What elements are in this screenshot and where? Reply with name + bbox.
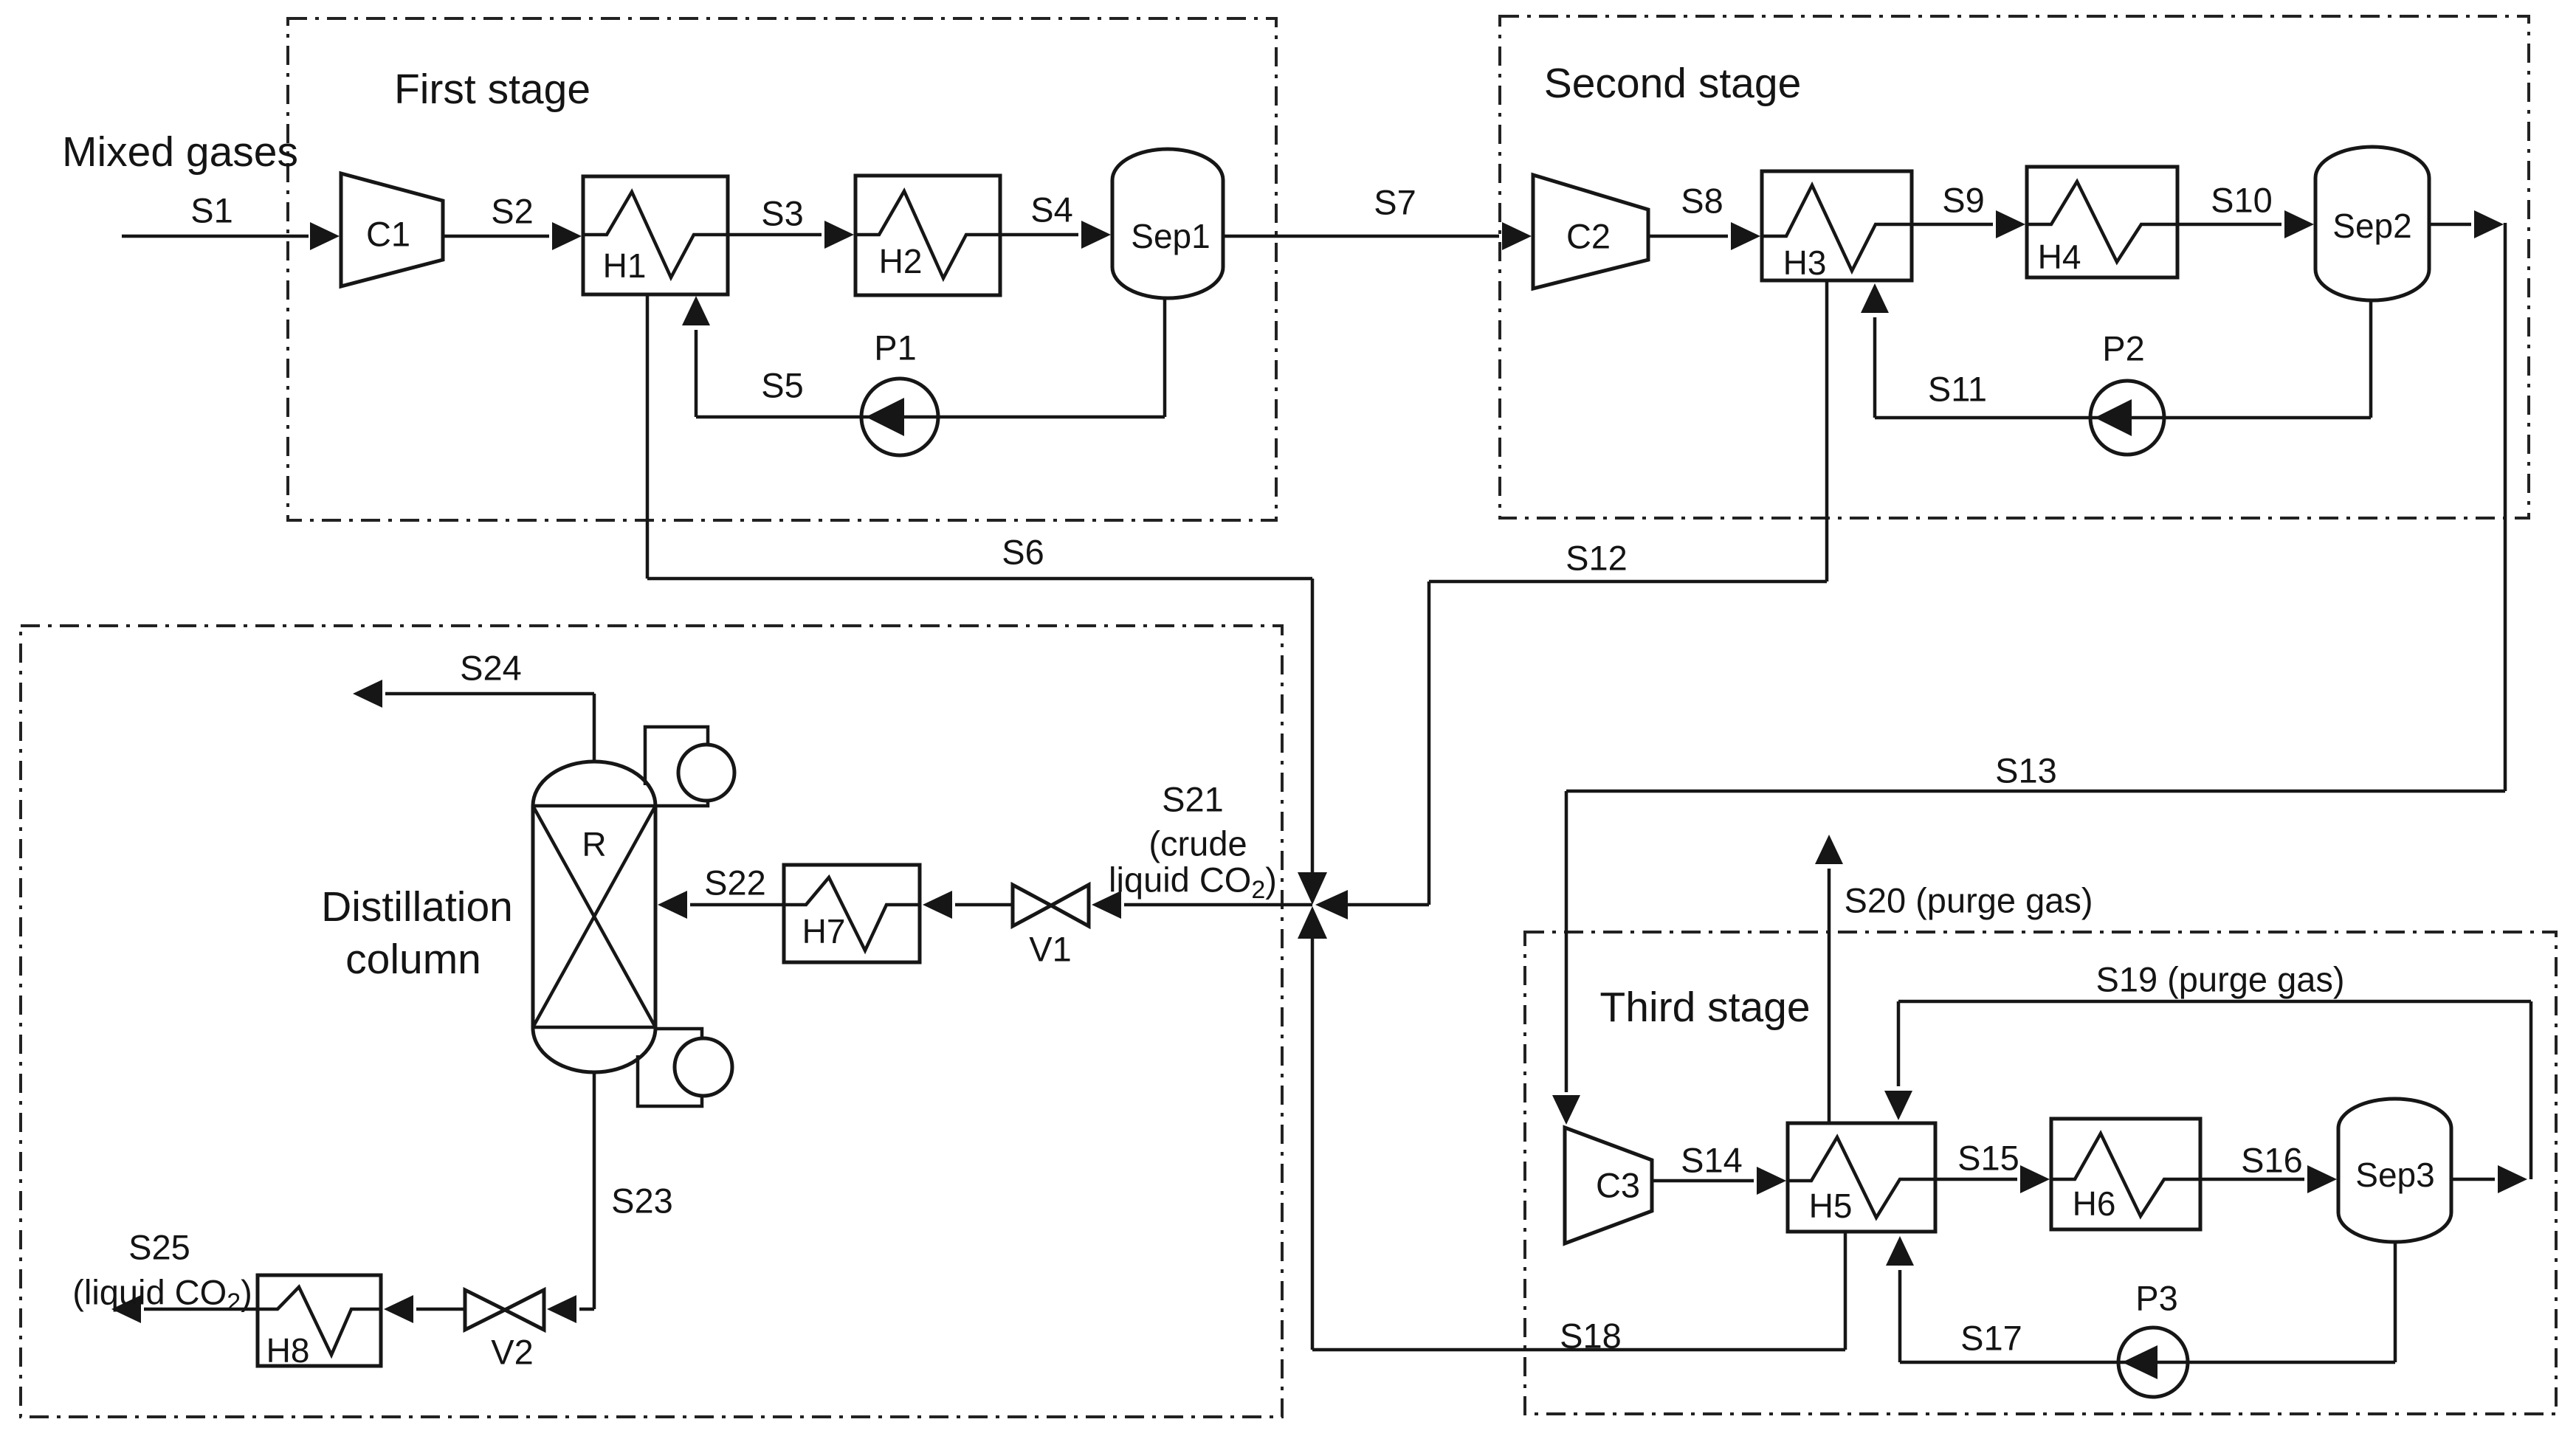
arrowhead S22 into column xyxy=(658,891,687,919)
wire S19 drop into H5 xyxy=(1897,1001,1901,1086)
wire S18 from H5 bottom xyxy=(1844,1232,1847,1350)
svg-text:S18: S18 xyxy=(1560,1317,1622,1356)
wire S18 horizontal xyxy=(1312,1348,1845,1352)
valve V1 xyxy=(1013,885,1051,926)
heat exchanger H5 xyxy=(1788,1123,1935,1232)
svg-text:H5: H5 xyxy=(1809,1187,1853,1225)
arrowhead S8 into H3 xyxy=(1731,222,1760,250)
heat exchanger H2 xyxy=(855,176,1000,295)
svg-text:S12: S12 xyxy=(1566,539,1628,578)
first stage dashed boundary box xyxy=(288,18,1276,520)
wire S14 xyxy=(1652,1179,1754,1183)
second stage dashed boundary box xyxy=(1500,16,2529,518)
wire S1 feed line xyxy=(122,235,309,238)
svg-text:H1: H1 xyxy=(603,246,647,285)
svg-text:S6: S6 xyxy=(1002,533,1044,572)
arrowhead S7 into C2 xyxy=(1502,222,1532,250)
wire S12 horizontal xyxy=(1429,580,1827,584)
svg-text:S1: S1 xyxy=(190,191,233,230)
arrowhead S4 into Sep1 xyxy=(1081,221,1111,249)
reboiler drum circle xyxy=(675,1038,732,1096)
wire Sep2 outlet to right xyxy=(2429,223,2471,227)
svg-text:Sep1: Sep1 xyxy=(1131,217,1210,255)
wire V2 to H8 xyxy=(416,1308,465,1311)
wire S5 horizontal xyxy=(696,415,1165,419)
arrowhead S15 into H6 xyxy=(2020,1165,2050,1193)
arrowhead S13 into C3 xyxy=(1552,1095,1580,1125)
svg-text:P3: P3 xyxy=(2135,1279,2178,1318)
svg-text:S17: S17 xyxy=(1960,1319,2022,1358)
svg-text:Mixed gases: Mixed gases xyxy=(62,128,298,176)
arrowhead into H8 xyxy=(384,1295,413,1323)
compressor C1 xyxy=(341,173,443,286)
svg-text:P2: P2 xyxy=(2102,329,2145,368)
pump P3 xyxy=(2118,1328,2188,1397)
arrowhead S16 into Sep3 xyxy=(2307,1165,2337,1193)
arrowhead S17 into H5 bottom xyxy=(1886,1236,1914,1266)
arrowhead S21 into V1 xyxy=(1092,891,1121,919)
wire S13 long horizontal xyxy=(1566,790,2505,793)
wire Sep3 bottom stem xyxy=(2394,1242,2397,1362)
wire S8 xyxy=(1648,235,1728,238)
arrowhead S24 out xyxy=(353,680,382,708)
wire S6 from H1 bottom down xyxy=(646,294,650,579)
svg-text:H7: H7 xyxy=(802,912,846,950)
svg-text:(liquid CO2): (liquid CO2) xyxy=(72,1273,252,1317)
svg-text:S24: S24 xyxy=(460,649,522,688)
wire S20 purge riser xyxy=(1828,869,1831,1123)
wire S6 drop to junction xyxy=(1311,579,1315,872)
arrowhead S18 into junction xyxy=(1298,906,1327,939)
svg-text:Third stage: Third stage xyxy=(1599,984,1810,1031)
svg-text:Sep2: Sep2 xyxy=(2332,207,2411,245)
wire S13 right vertical drop xyxy=(2504,223,2507,791)
arrowhead Sep2 outlet xyxy=(2474,210,2504,238)
pump P2 xyxy=(2090,381,2164,455)
wire S9 xyxy=(1912,223,1993,227)
wire S11 horizontal xyxy=(1875,416,2371,420)
svg-text:(crude: (crude xyxy=(1148,824,1247,863)
wire S7 Sep1 to C2 xyxy=(1223,235,1499,238)
wire S22 xyxy=(690,903,784,907)
svg-text:H6: H6 xyxy=(2073,1184,2116,1223)
wire Sep2 bottom stem xyxy=(2369,300,2373,418)
distillation section dashed boundary box xyxy=(21,626,1282,1417)
svg-text:C3: C3 xyxy=(1596,1166,1640,1205)
wire Sep1 bottom stem xyxy=(1163,298,1167,417)
svg-text:Second stage: Second stage xyxy=(1544,60,1802,107)
svg-text:H4: H4 xyxy=(2038,238,2081,276)
heat exchanger H4 xyxy=(2027,167,2177,277)
heat exchanger H8 xyxy=(258,1275,381,1366)
arrowhead S3 into H2 xyxy=(824,221,854,249)
arrowhead S12 into junction xyxy=(1315,890,1348,919)
svg-text:First stage: First stage xyxy=(394,66,590,113)
condenser loop piping xyxy=(645,727,708,806)
arrowhead S5 into H1 bottom xyxy=(682,296,710,325)
heat exchanger H7 xyxy=(784,865,920,962)
wire S10 xyxy=(2177,223,2281,227)
arrowhead S1 into C1 xyxy=(310,222,340,250)
svg-text:S2: S2 xyxy=(491,192,534,231)
wire S21 junction to V1 xyxy=(1124,903,1312,907)
svg-text:S15: S15 xyxy=(1957,1139,2019,1178)
reboiler loop piping xyxy=(638,1029,702,1106)
heat exchanger H1 xyxy=(583,176,728,294)
arrowhead S6 into junction xyxy=(1298,872,1327,905)
arrowhead S2 into H1 xyxy=(552,222,582,250)
svg-text:H3: H3 xyxy=(1783,244,1827,282)
wire S17 horizontal through P3 xyxy=(1900,1361,2395,1364)
svg-text:P1: P1 xyxy=(874,328,917,367)
svg-text:R: R xyxy=(582,825,606,863)
wire S17 vertical riser xyxy=(1898,1270,1902,1362)
wire S23 to V2 xyxy=(579,1308,594,1311)
svg-text:V2: V2 xyxy=(491,1333,534,1372)
wire S13 drop to C3 xyxy=(1565,791,1568,1092)
separator vessel Sep1 xyxy=(1112,149,1223,298)
svg-text:S22: S22 xyxy=(704,863,766,903)
svg-text:S14: S14 xyxy=(1681,1141,1743,1180)
svg-text:C1: C1 xyxy=(366,215,410,254)
svg-text:S8: S8 xyxy=(1681,182,1723,221)
svg-text:S19 (purge gas): S19 (purge gas) xyxy=(2095,960,2344,999)
separator vessel Sep2 xyxy=(2315,147,2429,300)
svg-text:Distillation: Distillation xyxy=(321,883,513,931)
wire S19 horizontal xyxy=(1898,1000,2531,1004)
compressor C2 xyxy=(1533,175,1648,289)
wire S4 xyxy=(1000,233,1078,237)
arrowhead into H7 xyxy=(923,891,952,919)
svg-text:S23: S23 xyxy=(611,1181,673,1221)
wire S16 xyxy=(2200,1178,2304,1181)
separator vessel Sep3 xyxy=(2338,1099,2451,1242)
arrowhead S25 out xyxy=(111,1295,141,1323)
wire S25 xyxy=(144,1308,258,1311)
third stage dashed boundary box xyxy=(1525,932,2556,1414)
svg-text:C2: C2 xyxy=(1566,217,1611,256)
valve V2 xyxy=(465,1290,505,1330)
column packing bottom line xyxy=(533,1026,655,1029)
svg-text:S13: S13 xyxy=(1995,751,2057,790)
arrowhead S9 into H4 xyxy=(1996,210,2025,238)
wire S6 horizontal xyxy=(647,577,1312,581)
compressor C3 xyxy=(1565,1128,1652,1243)
wire S24 riser from column top xyxy=(593,694,596,762)
svg-text:Sep3: Sep3 xyxy=(2355,1156,2434,1194)
svg-text:S3: S3 xyxy=(761,194,804,233)
wire S11 vertical riser xyxy=(1873,317,1877,418)
heat exchanger H6 xyxy=(2051,1119,2200,1229)
wire S3 xyxy=(728,233,822,237)
wire S15 xyxy=(1935,1178,2017,1181)
svg-text:S10: S10 xyxy=(2211,181,2273,220)
svg-text:S9: S9 xyxy=(1942,181,1985,220)
arrowhead S14 into H5 xyxy=(1757,1167,1786,1195)
wire S18 riser to junction xyxy=(1311,939,1315,1350)
svg-text:S25: S25 xyxy=(128,1228,190,1267)
svg-text:S21: S21 xyxy=(1162,780,1224,819)
svg-text:H2: H2 xyxy=(879,242,923,280)
condenser drum circle xyxy=(678,745,734,801)
wire S12 vertical drop xyxy=(1428,582,1431,905)
distillation column R vessel xyxy=(533,762,655,1072)
svg-text:column: column xyxy=(345,936,481,983)
wire S23 from column bottom xyxy=(593,1072,596,1309)
wire S2 xyxy=(443,235,549,238)
arrowhead S19 into H5 top xyxy=(1884,1091,1912,1120)
column packing top line xyxy=(533,804,655,808)
svg-text:H8: H8 xyxy=(266,1331,310,1370)
wire Sep3 outlet to right xyxy=(2451,1178,2495,1181)
wire S24 horizontal xyxy=(385,692,594,696)
svg-text:S20 (purge gas): S20 (purge gas) xyxy=(1844,881,2093,920)
svg-text:V1: V1 xyxy=(1029,930,1072,969)
svg-text:S5: S5 xyxy=(761,366,804,405)
arrowhead S10 into Sep2 xyxy=(2284,210,2314,238)
wire S5 vertical riser xyxy=(695,330,698,417)
arrowhead S11 into H3 bottom xyxy=(1861,283,1889,313)
wire S12 into junction xyxy=(1348,903,1429,907)
column packing X cross xyxy=(533,806,655,1027)
svg-text:S16: S16 xyxy=(2241,1141,2303,1180)
wire V1 to H7 xyxy=(955,903,1013,907)
pump P1 xyxy=(861,379,938,455)
heat exchanger H3 xyxy=(1762,171,1912,280)
svg-text:S11: S11 xyxy=(1928,370,1987,409)
arrowhead S23 into V2 xyxy=(547,1295,576,1323)
wire S19 right riser xyxy=(2529,1001,2533,1179)
arrowhead Sep3 outlet xyxy=(2498,1165,2527,1193)
svg-text:S4: S4 xyxy=(1030,190,1073,230)
wire S12 from H3 bottom down xyxy=(1825,280,1829,582)
arrowhead S20 up xyxy=(1815,835,1843,864)
svg-text:S7: S7 xyxy=(1374,183,1416,222)
